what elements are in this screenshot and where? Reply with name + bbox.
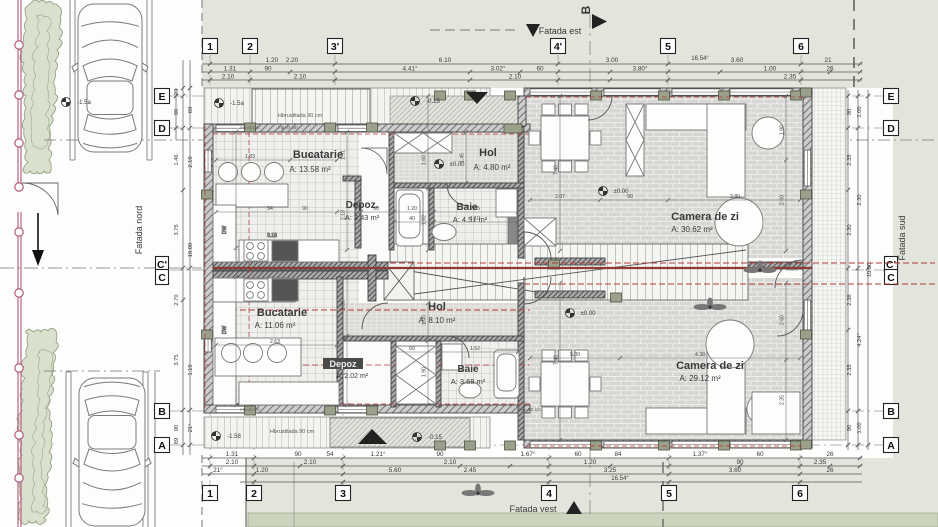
svg-text:1.19: 1.19 (188, 364, 194, 375)
svg-text:1.51: 1.51 (341, 300, 347, 310)
svg-text:-0.15: -0.15 (426, 99, 440, 105)
svg-text:54: 54 (326, 451, 334, 458)
svg-text:21°: 21° (213, 466, 223, 474)
svg-text:1.31: 1.31 (226, 451, 239, 458)
svg-text:10.00: 10.00 (867, 263, 873, 278)
svg-text:2: 2 (251, 488, 257, 500)
svg-text:Camera de zi: Camera de zi (671, 211, 739, 223)
svg-text:6.10: 6.10 (439, 57, 452, 64)
svg-text:6: 6 (797, 488, 803, 500)
svg-text:4.38: 4.38 (695, 352, 705, 358)
svg-text:Hp=0 cm: Hp=0 cm (278, 125, 297, 131)
svg-text:Bucatarie: Bucatarie (293, 149, 343, 161)
svg-text:1.60: 1.60 (422, 155, 428, 165)
svg-text:A: 2.02 m²: A: 2.02 m² (336, 373, 369, 380)
svg-text:1.67°: 1.67° (521, 450, 536, 458)
svg-text:1.83: 1.83 (245, 154, 255, 160)
svg-text:2.63: 2.63 (270, 339, 280, 345)
svg-text:1: 1 (207, 41, 213, 53)
svg-text:Baie: Baie (456, 202, 478, 213)
svg-text:Hp=0 cm: Hp=0 cm (240, 125, 259, 131)
svg-text:84: 84 (614, 451, 622, 458)
svg-text:E: E (158, 91, 165, 103)
svg-text:1.37°: 1.37° (693, 450, 708, 458)
svg-text:2.10: 2.10 (294, 74, 307, 81)
svg-text:4': 4' (554, 41, 562, 53)
svg-text:3.18: 3.18 (267, 233, 277, 239)
svg-text:DW: DW (222, 326, 228, 335)
svg-text:Hol: Hol (479, 147, 497, 159)
svg-text:5: 5 (665, 41, 671, 53)
svg-text:90: 90 (302, 206, 308, 212)
svg-text:1: 1 (207, 488, 213, 500)
svg-text:1.46: 1.46 (174, 154, 180, 165)
svg-text:1.20: 1.20 (256, 467, 269, 474)
svg-text:2.35: 2.35 (847, 154, 853, 165)
svg-text:2.10: 2.10 (444, 459, 457, 466)
svg-text:60: 60 (409, 346, 415, 352)
svg-text:±0.00: ±0.00 (614, 189, 630, 195)
svg-text:5.00: 5.00 (570, 352, 580, 358)
svg-text:3.25: 3.25 (604, 467, 617, 474)
svg-text:2.35: 2.35 (784, 74, 797, 81)
svg-text:5.60: 5.60 (389, 467, 402, 474)
svg-text:1.20: 1.20 (266, 57, 279, 64)
svg-text:C: C (887, 272, 895, 284)
svg-text:B: B (158, 406, 166, 418)
svg-text:21: 21 (824, 57, 832, 64)
svg-text:Fatada vest: Fatada vest (509, 504, 557, 514)
svg-text:A: 13.58 m²: A: 13.58 m² (289, 165, 331, 174)
svg-text:3.80°: 3.80° (633, 65, 648, 73)
svg-text:90: 90 (436, 451, 444, 458)
svg-text:1.31: 1.31 (224, 66, 237, 73)
svg-text:1.21°: 1.21° (371, 450, 386, 458)
svg-text:1.20: 1.20 (584, 459, 597, 466)
svg-text:90: 90 (294, 451, 302, 458)
svg-text:6: 6 (798, 41, 804, 53)
svg-text:26: 26 (826, 451, 834, 458)
svg-text:3.80: 3.80 (730, 194, 740, 200)
svg-text:60: 60 (756, 451, 764, 458)
svg-text:3.02°: 3.02° (491, 65, 506, 73)
svg-text:Depoz: Depoz (330, 359, 358, 369)
svg-text:-0.15: -0.15 (428, 435, 442, 441)
svg-text:E: E (887, 91, 894, 103)
svg-text:3.60: 3.60 (729, 467, 742, 474)
svg-text:A: 8.10 m²: A: 8.10 m² (419, 316, 456, 325)
svg-text:16.54°: 16.54° (611, 476, 629, 482)
svg-text:2.70: 2.70 (174, 294, 180, 305)
svg-text:2.30: 2.30 (847, 224, 853, 235)
svg-text:1.82: 1.82 (422, 215, 428, 225)
svg-text:60: 60 (574, 451, 582, 458)
svg-text:90: 90 (264, 66, 272, 73)
svg-text:90: 90 (847, 109, 853, 115)
svg-text:Camera de zi: Camera de zi (676, 360, 744, 372)
svg-text:2.60: 2.60 (780, 315, 786, 325)
svg-text:2.35: 2.35 (780, 395, 786, 405)
svg-text:A: 4.51 m²: A: 4.51 m² (453, 215, 488, 224)
svg-text:A: 4.80 m²: A: 4.80 m² (474, 163, 511, 172)
svg-text:1.90: 1.90 (780, 125, 786, 135)
svg-text:3: 3 (340, 488, 346, 500)
svg-text:26: 26 (826, 66, 834, 73)
svg-text:C: C (158, 272, 166, 284)
svg-text:60: 60 (536, 66, 544, 73)
svg-text:3.75: 3.75 (174, 224, 180, 235)
svg-text:D: D (887, 123, 895, 135)
svg-text:90: 90 (174, 425, 180, 431)
svg-text:Hp=90 cm: Hp=90 cm (519, 407, 541, 413)
svg-text:2.07: 2.07 (555, 194, 565, 200)
svg-text:23: 23 (174, 89, 180, 95)
svg-text:A: 11.06 m²: A: 11.06 m² (255, 321, 296, 330)
svg-text:Fatada sud: Fatada sud (897, 215, 907, 260)
svg-text:-1.58: -1.58 (227, 434, 241, 440)
svg-text:1.20: 1.20 (407, 206, 417, 212)
svg-text:Bucatarie: Bucatarie (257, 307, 307, 319)
svg-text:A: 3.68 m²: A: 3.68 m² (451, 377, 486, 386)
svg-text:Hol: Hol (428, 301, 446, 313)
svg-text:4: 4 (546, 488, 552, 500)
svg-text:7.40: 7.40 (554, 165, 560, 175)
svg-text:A: 29.12 m²: A: 29.12 m² (679, 374, 721, 383)
svg-text:3': 3' (331, 41, 339, 53)
svg-text:2: 2 (247, 41, 253, 53)
svg-text:2.10: 2.10 (509, 74, 522, 81)
svg-text:Depoz.: Depoz. (346, 200, 379, 211)
svg-text:89: 89 (188, 107, 194, 113)
svg-text:4.24°: 4.24° (857, 333, 863, 347)
svg-text:A: 30.62 m²: A: 30.62 m² (671, 225, 713, 234)
svg-text:90: 90 (847, 425, 853, 431)
svg-text:3.60: 3.60 (731, 57, 744, 64)
svg-text:2.35: 2.35 (847, 364, 853, 375)
svg-text:16.54°: 16.54° (691, 56, 709, 62)
svg-text:1.90: 1.90 (422, 367, 428, 377)
svg-text:89: 89 (174, 438, 180, 444)
svg-text:±0.00: ±0.00 (581, 311, 597, 317)
svg-text:1.52: 1.52 (470, 346, 480, 352)
svg-text:Fatada nord: Fatada nord (134, 206, 144, 255)
svg-text:90: 90 (174, 109, 180, 115)
svg-text:3.00: 3.00 (606, 57, 619, 64)
svg-text:26: 26 (826, 467, 834, 474)
svg-text:-1.5a: -1.5a (77, 100, 91, 106)
svg-text:94: 94 (267, 206, 273, 212)
svg-text:5: 5 (666, 488, 672, 500)
svg-text:A: A (887, 440, 895, 452)
svg-text:7.40: 7.40 (554, 355, 560, 365)
svg-text:Baie: Baie (457, 364, 479, 375)
svg-text:±0.00: ±0.00 (450, 162, 466, 168)
svg-text:A: A (158, 440, 166, 452)
svg-text:10.00: 10.00 (188, 243, 194, 258)
svg-text:2.45: 2.45 (464, 467, 477, 474)
svg-text:2.10: 2.10 (226, 459, 239, 466)
svg-text:-1.5a: -1.5a (230, 101, 244, 107)
svg-text:2.30: 2.30 (857, 194, 863, 205)
svg-text:Fatada est: Fatada est (539, 26, 582, 36)
svg-text:A: 2.43 m²: A: 2.43 m² (345, 213, 380, 222)
svg-text:90: 90 (736, 459, 744, 466)
svg-text:B: B (887, 406, 895, 418)
svg-text:2.10: 2.10 (222, 74, 235, 81)
svg-text:Hp=0 cm: Hp=0 cm (240, 407, 259, 413)
svg-text:21°: 21° (188, 424, 194, 433)
svg-text:1.00: 1.00 (857, 422, 863, 433)
svg-text:Hbrustilada 90 cm: Hbrustilada 90 cm (278, 113, 323, 119)
svg-text:40: 40 (409, 216, 415, 222)
svg-text:3.75: 3.75 (174, 354, 180, 365)
svg-text:B: B (579, 5, 593, 14)
svg-text:D: D (158, 123, 166, 135)
svg-text:90: 90 (627, 194, 633, 200)
svg-text:2.35: 2.35 (814, 459, 827, 466)
svg-text:1.00: 1.00 (764, 66, 777, 73)
svg-text:2.20: 2.20 (286, 57, 299, 64)
svg-text:DW: DW (222, 226, 228, 235)
svg-text:2.10: 2.10 (188, 156, 194, 167)
svg-text:Hbrustilada 90 cm: Hbrustilada 90 cm (270, 429, 315, 435)
svg-text:4.41°: 4.41° (403, 65, 418, 73)
svg-text:2.10: 2.10 (304, 459, 317, 466)
svg-text:2.38: 2.38 (847, 294, 853, 305)
svg-text:1.00: 1.00 (857, 106, 863, 117)
